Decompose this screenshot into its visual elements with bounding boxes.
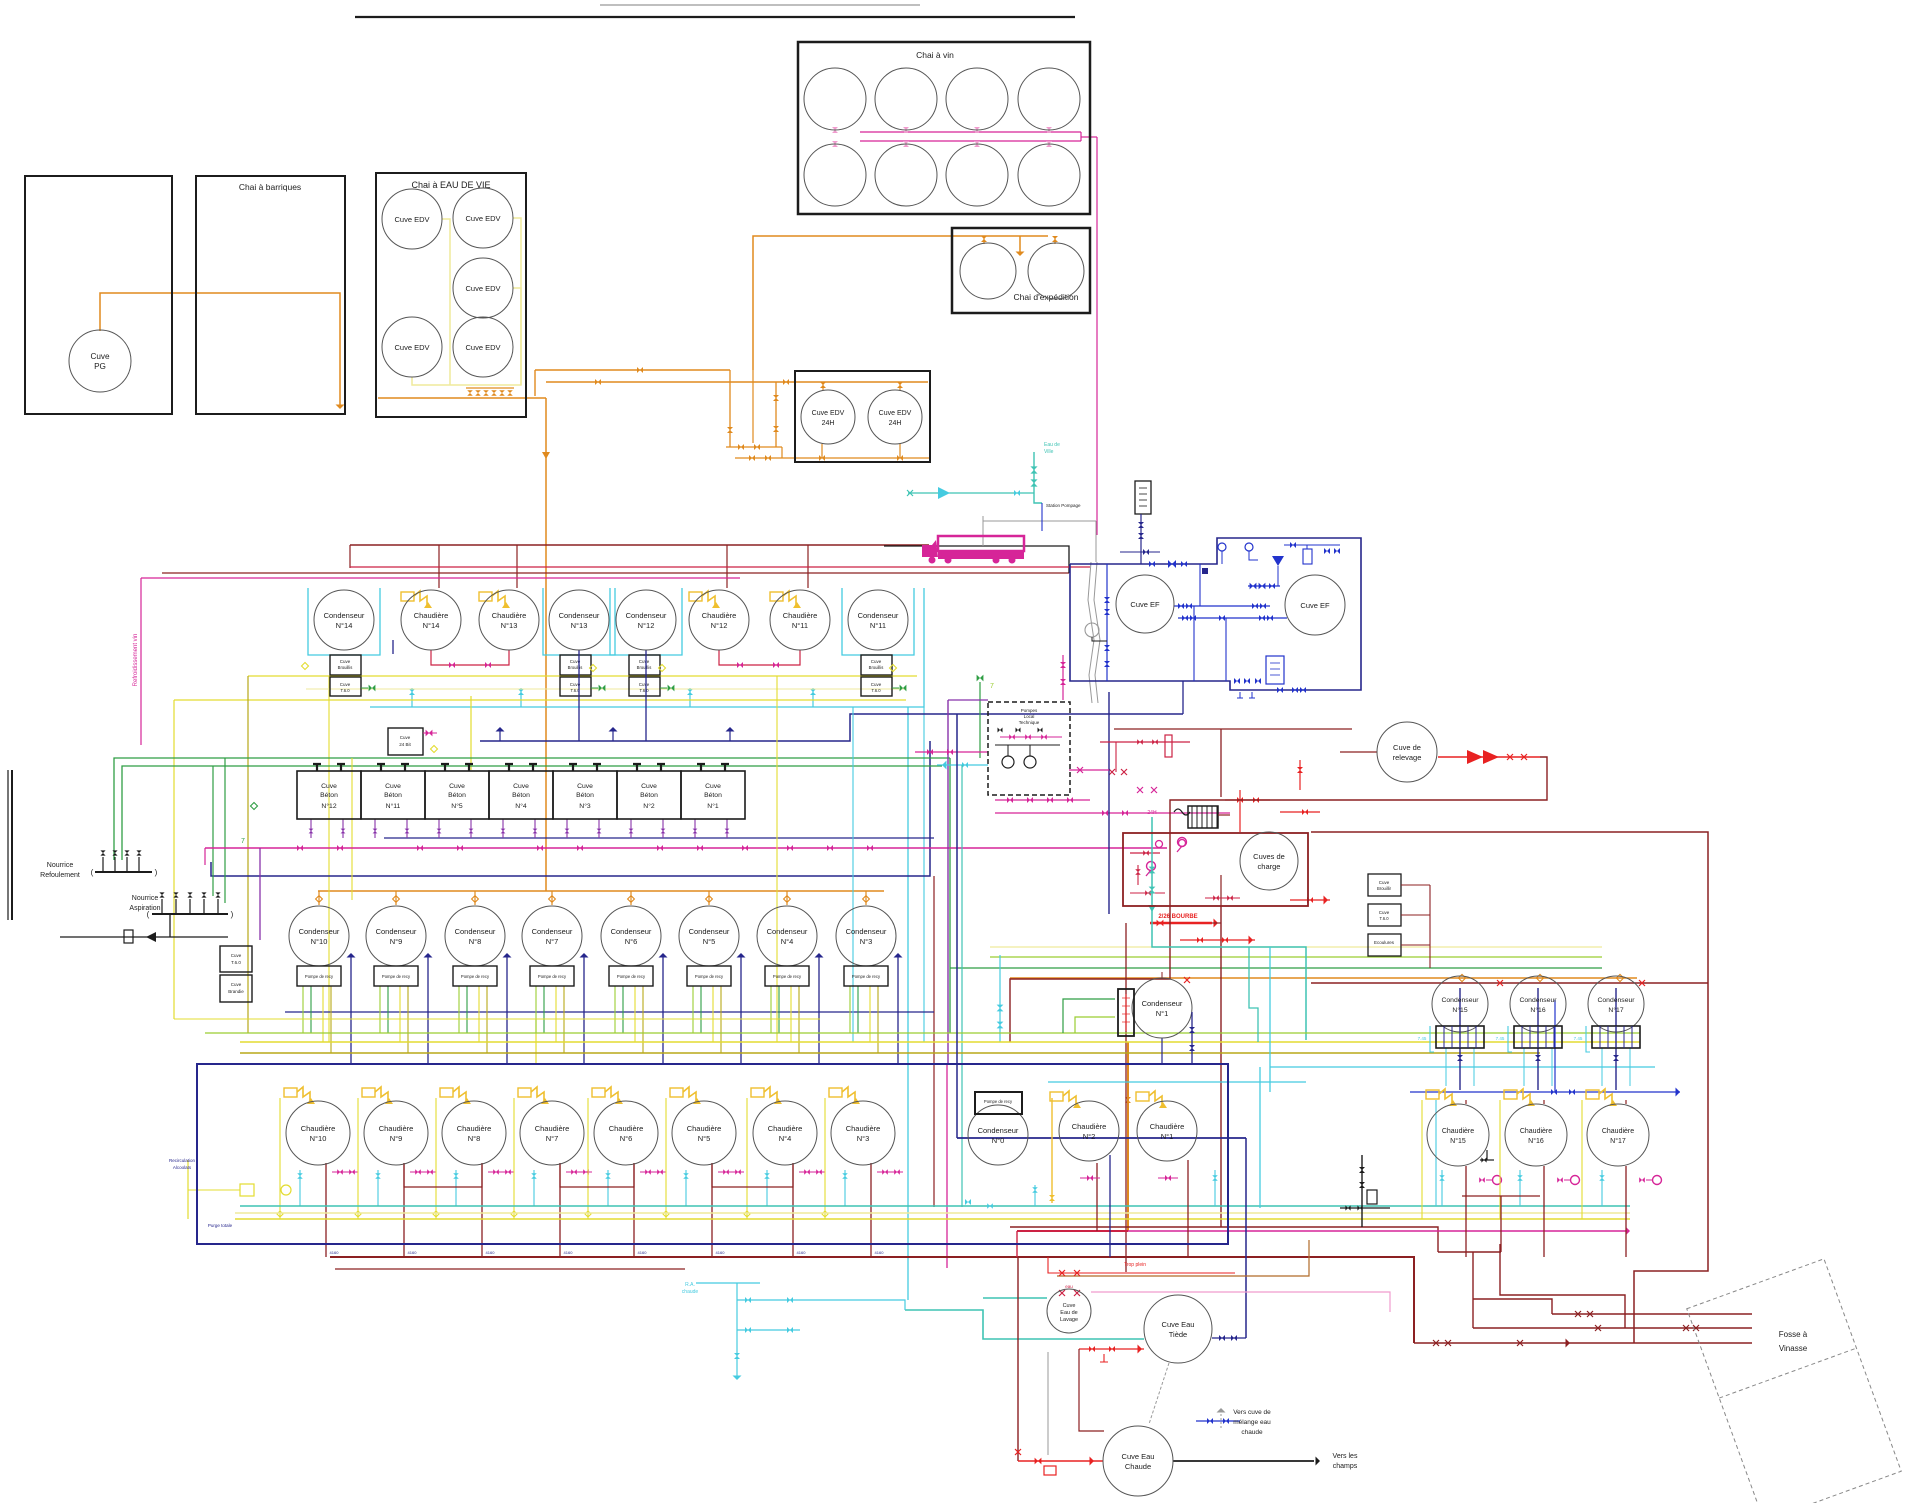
svg-text:Vinasse: Vinasse [1779, 1344, 1808, 1353]
svg-text:4160: 4160 [486, 1250, 496, 1255]
svg-text:Pompe de recy: Pompe de recy [382, 974, 411, 979]
wire cyan y1206 [240, 1205, 1630, 1207]
box cuve brouillis x861 [861, 655, 892, 675]
svg-text:4160: 4160 [408, 1250, 418, 1255]
box EDV 24H [795, 371, 930, 462]
wire yellow vert x174 [173, 700, 175, 1019]
valve green x560 [599, 685, 606, 692]
box chai expedition [952, 228, 1090, 313]
wire yellow vert x248 [247, 676, 249, 1033]
wire yellow h y700 [174, 699, 906, 701]
svg-text:N°12: N°12 [638, 621, 655, 630]
purple stubs beton x553 [566, 819, 568, 838]
svg-text:N°5: N°5 [698, 1134, 711, 1143]
svg-text:Chaudière: Chaudière [492, 611, 527, 620]
stub orange condenser 9 [395, 891, 397, 905]
cyan stub row3 x785 [766, 1170, 768, 1206]
svg-text:24H: 24H [1147, 810, 1157, 816]
burner chaud1 [1136, 1092, 1149, 1101]
black vers champs [1173, 1460, 1314, 1462]
svg-text:Béton: Béton [640, 792, 658, 799]
svg-text:Nourrice: Nourrice [47, 862, 74, 869]
svg-text:N°13: N°13 [571, 621, 588, 630]
svg-text:Condenseur: Condenseur [1142, 999, 1183, 1008]
magenta valves y848 [297, 845, 303, 851]
navy drop cond2 x787 [818, 955, 820, 1064]
wire magenta y1231 right [1128, 1230, 1626, 1232]
magenta pump trio x1458 [1493, 1176, 1502, 1185]
maroon relevage loop [1010, 757, 1547, 1042]
magenta pump trio x1618 [1653, 1176, 1662, 1185]
blue EF bottom valves [1234, 678, 1240, 684]
beton clamps N°2 [633, 764, 665, 771]
wire orange h y370 [535, 369, 730, 371]
blue tiede marks [1196, 1420, 1240, 1422]
svg-text:Chai à vin: Chai à vin [916, 50, 954, 60]
valve green x861 [900, 685, 907, 692]
box pompe N°10 row2 [297, 966, 341, 986]
wire crimson y1231 [1017, 1230, 1128, 1232]
black manifold 1362 [1361, 1155, 1363, 1227]
svg-text:Station Pompage: Station Pompage [1046, 503, 1081, 508]
wire orange vertical x545 [545, 398, 547, 891]
navy vert trio x1460 [1459, 988, 1461, 1090]
yellow feed row3 x474 [435, 1098, 437, 1219]
svg-text:N°2: N°2 [643, 802, 655, 810]
wire top black line [355, 16, 1075, 18]
svg-text:Béton: Béton [384, 792, 402, 799]
svg-text:N°14: N°14 [423, 621, 440, 630]
stub orange condenser 4 [786, 891, 788, 905]
stub orange condenser 6 [630, 891, 632, 905]
svg-text:N°14: N°14 [336, 621, 353, 630]
wire orange from Cuve PG [100, 293, 340, 406]
cyan stub row3 x552 [533, 1170, 535, 1206]
navy v x1246 [1245, 1138, 1247, 1338]
crimson h y742 [1100, 741, 1190, 743]
svg-text:mélange eau: mélange eau [1233, 1419, 1271, 1426]
svg-text:N°11: N°11 [792, 621, 808, 630]
tank Condenseur N°11 row1 [848, 590, 908, 650]
maroon drains chaud12 [1096, 1163, 1098, 1231]
burner trio x1618 [1586, 1090, 1599, 1099]
tank Chaudière N°13 row1 [479, 590, 539, 650]
box pompe N°6 row2 [609, 966, 653, 986]
navy v right cond1 [1191, 1012, 1193, 1064]
blue small instrument [1266, 656, 1284, 684]
burner trio x1458 [1426, 1090, 1439, 1099]
nourrice refoulement [95, 871, 152, 873]
svg-text:N°3: N°3 [857, 1134, 870, 1143]
beton clamps N°3 [569, 764, 601, 771]
wire navy x1110 [1109, 1155, 1111, 1257]
tank Chaudiere N°10 row3 [286, 1101, 350, 1165]
svg-text:Ecoulures: Ecoulures [1374, 940, 1395, 945]
tank Chaudière N°11 row1 [770, 590, 830, 650]
svg-text:Chaudière: Chaudière [535, 1124, 570, 1133]
tank vin top 0 [804, 68, 866, 130]
magenta diamonds y845 [1156, 841, 1163, 848]
svg-text:Condenseur: Condenseur [1441, 997, 1479, 1004]
svg-text:Cuve: Cuve [577, 783, 593, 790]
svg-text:N°8: N°8 [468, 1134, 481, 1143]
svg-text:N°0: N°0 [992, 1136, 1005, 1145]
green drops cond2 x709 [692, 986, 694, 1033]
svg-text:Condenseur: Condenseur [1597, 997, 1635, 1004]
cyan v 1270 [1269, 947, 1271, 1092]
tank Condenseur N°4 row2 [757, 906, 817, 966]
purple stubs beton x681 [694, 819, 696, 838]
svg-text:Chaudière: Chaudière [1520, 1128, 1552, 1135]
tank Chaudiere N°8 row3 [442, 1101, 506, 1165]
svg-text:N°10: N°10 [311, 937, 328, 946]
svg-text:Condenseur: Condenseur [532, 927, 573, 936]
maroon v x1018 [1017, 1257, 1019, 1461]
red tiede pipe [1079, 1348, 1144, 1350]
navy drop cond2 x631 [662, 955, 664, 1064]
svg-text:N°1: N°1 [1161, 1132, 1174, 1141]
cyan valve x690 [689, 688, 691, 707]
orange diamond trio x1540 [1536, 974, 1543, 981]
svg-text:Brouillir: Brouillir [1377, 886, 1392, 891]
green drops cond2 x866 [849, 986, 851, 1033]
svg-text:Technique: Technique [1019, 720, 1040, 725]
magenta pair row3 x704 [718, 1171, 744, 1173]
wire maroon y1227 [1010, 1227, 1438, 1252]
wire yellow vert x352 [351, 758, 353, 900]
svg-text:Cuve EDV: Cuve EDV [465, 343, 500, 352]
svg-text:N°4: N°4 [779, 1134, 792, 1143]
tank condenseur N16 [1510, 976, 1566, 1032]
wire yellow vert x536 [535, 1019, 537, 1064]
svg-text:Chaudière: Chaudière [846, 1124, 881, 1133]
svg-text:Cuve: Cuve [340, 682, 351, 687]
box cuve brouillis x560 [560, 655, 591, 675]
svg-text:Béton: Béton [704, 792, 722, 799]
svg-text:N°9: N°9 [390, 1134, 403, 1143]
valve orange 786 [783, 379, 789, 385]
svg-text:Cuve: Cuve [871, 659, 882, 664]
cyan x1000 lower [999, 955, 1001, 1042]
pink lavage marks [1059, 1290, 1065, 1296]
cyan valve x521 [520, 688, 522, 707]
cyan bottom cluster [696, 1282, 760, 1284]
box pompe N°3 row2 [844, 966, 888, 986]
svg-text:N°11: N°11 [870, 621, 886, 630]
svg-text:Cuve EDV: Cuve EDV [394, 343, 429, 352]
svg-text:7.45: 7.45 [1574, 1036, 1583, 1041]
navy vert trio x1538 [1537, 988, 1539, 1090]
cyan stub trio x1536 [1519, 1170, 1521, 1206]
green drops cond2 x787 [770, 986, 772, 1033]
svg-text:Nourrice: Nourrice [132, 895, 159, 902]
box pumps dashed [988, 702, 1070, 795]
svg-text:Cuves de: Cuves de [1253, 852, 1285, 861]
burner row3 x474 [440, 1088, 453, 1097]
burner chaudiere top x431 [401, 592, 414, 601]
svg-text:Cuve: Cuve [871, 682, 882, 687]
tank eau tiede [1144, 1295, 1212, 1363]
svg-text:Chaudière: Chaudière [1072, 1122, 1107, 1131]
green bowtie x980 [977, 675, 984, 682]
cyan v1260 [1259, 1067, 1261, 1208]
truck tanker [922, 536, 1024, 564]
tank condenseur N17 [1588, 976, 1644, 1032]
box pompe N°5 row2 [687, 966, 731, 986]
cyan stub row3 x396 [377, 1170, 379, 1206]
wire magenta x947 lower [946, 1064, 948, 1268]
cyan valve x813 [812, 688, 814, 707]
cyan jacket condenser x878 [842, 588, 914, 655]
cyan jacket condenser x344 [308, 588, 380, 655]
svg-text:Pompe de recy: Pompe de recy [461, 974, 490, 979]
blue v1555 [1554, 1000, 1556, 1092]
svg-text:N°5: N°5 [703, 937, 716, 946]
box cuve beton N°11 [361, 771, 425, 819]
svg-text:7.45: 7.45 [1418, 1036, 1427, 1041]
valve orange 823 [820, 382, 826, 388]
wire cyan vert x908 [907, 707, 909, 1300]
svg-text:Cuve: Cuve [231, 982, 242, 987]
burner chaudiere top x509 [479, 592, 492, 601]
tank condenseur N15 [1432, 976, 1488, 1032]
tank eau chaude [1103, 1426, 1173, 1496]
navy tiede link [1212, 1337, 1246, 1339]
maroon drain trio x1536 [1543, 1166, 1545, 1257]
maroon drain row3 x396 [403, 1163, 405, 1257]
cyan y1082 [1048, 1081, 1306, 1083]
wire green vert x225 [224, 758, 226, 903]
tank vin top 1 [875, 68, 937, 130]
magenta charge cluster h [995, 799, 1090, 801]
svg-text:Béton: Béton [320, 792, 338, 799]
wire yellow y1042 [240, 1041, 1640, 1043]
magenta x marks [1137, 787, 1143, 793]
valve green x330 [369, 685, 376, 692]
svg-text:N°3: N°3 [860, 937, 873, 946]
svg-text:N°4: N°4 [781, 937, 794, 946]
svg-text:Cuve: Cuve [513, 783, 529, 790]
wire olive y1053 [240, 1052, 1540, 1054]
magenta pair row3 x626 [640, 1171, 666, 1173]
tank chaudiere N1 [1137, 1101, 1197, 1161]
svg-text:T.6.0: T.6.0 [871, 688, 881, 693]
red arrows right charge [1290, 899, 1330, 901]
svg-text:Pompe de recy: Pompe de recy [773, 974, 802, 979]
tank cuve EF 1 [1116, 575, 1174, 633]
box cuve beton N°12 [297, 771, 361, 819]
maroon fosse feed 3 [1414, 1342, 1752, 1344]
navy cond1 stub [1161, 1038, 1163, 1064]
svg-text:Chaudière: Chaudière [457, 1124, 492, 1133]
svg-text:2/26 BOURBE: 2/26 BOURBE [1158, 914, 1197, 920]
stub orange condenser 7 [551, 891, 553, 905]
burner row3 x785 [751, 1088, 764, 1097]
svg-text:Cuve: Cuve [1379, 910, 1390, 915]
navy EF topbus items [1218, 543, 1226, 551]
tank vin top 2 [946, 68, 1008, 130]
navy v x1109 [1108, 692, 1110, 914]
svg-text:Chaudière: Chaudière [1150, 1122, 1185, 1131]
svg-text:Béton: Béton [576, 792, 594, 799]
wire orange condenser bus [318, 890, 884, 892]
green hook cond1 [1063, 999, 1115, 1033]
magenta pumpbox link [1069, 769, 1109, 771]
tank eau lavage [1047, 1289, 1091, 1333]
wire pale yellow y676 [248, 675, 917, 677]
box trio cond 1 [1514, 1026, 1562, 1048]
box cuve beton N°4 [489, 771, 553, 819]
valve orange 900 [897, 382, 903, 388]
svg-text:Brouillis: Brouillis [338, 665, 353, 670]
cyan jacket condenser x579 [543, 588, 615, 655]
svg-text:R.A.: R.A. [685, 1282, 695, 1288]
box cuve beton N°1 [681, 771, 745, 819]
box cuve brouillis x330 [330, 655, 361, 675]
svg-text:Condenseur: Condenseur [299, 927, 340, 936]
tank vin bottom 1 [875, 144, 937, 206]
svg-text:Cuve EDV: Cuve EDV [879, 410, 912, 417]
navy stub cond13 [578, 650, 580, 741]
box cuve beton N°5 [425, 771, 489, 819]
svg-text:Brouillis: Brouillis [869, 665, 884, 670]
wire pink vin bus [860, 131, 1081, 133]
maroon v x1221 top [1220, 729, 1222, 797]
wire purple pumpbox [948, 699, 988, 701]
svg-text:7: 7 [241, 838, 245, 845]
svg-text:Tiède: Tiède [1169, 1330, 1187, 1339]
box left small 1 [220, 946, 252, 972]
burner row3 x863 [829, 1088, 842, 1097]
tank Condenseur N°9 row2 [366, 906, 426, 966]
stub orange condenser 3 [865, 891, 867, 905]
black aspiration piping [169, 914, 171, 937]
red lavage pipe [1048, 1257, 1235, 1273]
navy drop cond2 x475 [506, 955, 508, 1064]
purple stubs beton x489 [502, 819, 504, 838]
svg-text:relevage: relevage [1393, 753, 1422, 762]
svg-text:N°13: N°13 [501, 621, 518, 630]
tank Chaudiere N°7 row3 [520, 1101, 584, 1165]
tank Condenseur N°6 row2 [601, 906, 661, 966]
tank cuve EF 2 [1285, 575, 1345, 635]
teal y1339 [905, 1310, 1144, 1339]
blue EF pump line [1248, 585, 1280, 587]
magenta pair row3 x552 [566, 1171, 592, 1173]
wire yellow y1019 [174, 1018, 820, 1020]
svg-text:Chaudière: Chaudière [379, 1124, 414, 1133]
svg-text:Purge totale: Purge totale [208, 1223, 233, 1228]
purple stubs beton x361 [374, 819, 376, 838]
black trio link [1480, 1159, 1494, 1161]
wire khaki EDV vertical 1 [442, 219, 450, 385]
wire orange exp drop [1019, 236, 1021, 252]
magenta charge cluster h2 [995, 812, 1230, 814]
beton clamps N°11 [377, 764, 409, 771]
wire navy beton bottom bus [211, 741, 930, 876]
wire magenta vert x1097 [1096, 137, 1098, 535]
svg-text:Pompe de recy: Pompe de recy [305, 974, 334, 979]
green drops cond2 x631 [614, 986, 616, 1033]
wire lightgreen y957 [990, 956, 1602, 958]
red cluster charge [1225, 799, 1270, 801]
cyan jacket condenser x646 [610, 588, 682, 655]
pumpbox internals [1002, 756, 1014, 768]
svg-text:24H: 24H [822, 420, 835, 427]
wire purple x948 [947, 700, 949, 1064]
maroon drain row3 x785 [792, 1163, 794, 1257]
svg-text:N°15: N°15 [1452, 1006, 1467, 1014]
svg-text:N°6: N°6 [625, 937, 638, 946]
stub orange condenser 8 [474, 891, 476, 905]
black page edge [7, 770, 9, 920]
navy drop instrument [1140, 514, 1142, 564]
tank Chaudière N°12 row1 [689, 590, 749, 650]
green drops cond2 x396 [379, 986, 381, 1033]
box charge [1123, 833, 1308, 906]
svg-text:Condenseur: Condenseur [559, 611, 600, 620]
gray v x1048 [1047, 1352, 1049, 1455]
wire maroon y1269 [335, 1268, 685, 1270]
svg-text:4160: 4160 [638, 1250, 648, 1255]
navy stub cond12 [645, 650, 647, 741]
tank chaudiere N15 [1427, 1104, 1489, 1166]
navy EF exit down [1182, 681, 1184, 714]
box cuve beton N°2 [617, 771, 681, 819]
blue y1092 [1410, 1091, 1680, 1093]
svg-text:Cuve EDV: Cuve EDV [465, 214, 500, 223]
box cuve brouillis x629 [629, 655, 660, 675]
yellow feed row3 x626 [587, 1098, 589, 1219]
tank chaudiere N17 [1587, 1104, 1649, 1166]
svg-text:N°1: N°1 [707, 802, 719, 810]
orange diamond trio x1620 [1616, 974, 1623, 981]
svg-text:Cuve EDV: Cuve EDV [394, 215, 429, 224]
beton clamps N°5 [441, 764, 473, 771]
tank Chaudiere N°3 row3 [831, 1101, 895, 1165]
svg-text:Pompe de recy: Pompe de recy [538, 974, 567, 979]
maroon drain row3 x474 [481, 1163, 483, 1257]
tank vin top 3 [1018, 68, 1080, 130]
svg-text:Lavage: Lavage [1060, 1317, 1078, 1323]
svg-text:): ) [155, 868, 158, 877]
tank Chaudiere N°9 row3 [364, 1101, 428, 1165]
tank cuve EDV 2 [453, 188, 513, 248]
burner row3 x318 [284, 1088, 297, 1097]
yellow feed row3 x396 [357, 1098, 359, 1219]
svg-text:Condenseur: Condenseur [858, 611, 899, 620]
svg-text:N°8: N°8 [469, 937, 482, 946]
navy drop cond2 x552 [583, 955, 585, 1064]
cyan stub trio x1618 [1601, 1170, 1603, 1206]
svg-text:charge: charge [1258, 862, 1281, 871]
svg-text:N°4: N°4 [515, 802, 527, 810]
wire magenta y848 [205, 847, 1167, 849]
svg-text:Cuve: Cuve [641, 783, 657, 790]
svg-text:N°17: N°17 [1610, 1137, 1626, 1145]
svg-text:N°3: N°3 [579, 802, 591, 810]
box cuve 24 bit [388, 728, 423, 755]
svg-text:Chai à barriques: Chai à barriques [239, 182, 301, 192]
svg-text:champs: champs [1333, 1463, 1358, 1470]
wire magenta bus y578 [141, 577, 740, 579]
wire maroon vert x934 [933, 876, 935, 1207]
red pump relevage [1438, 756, 1540, 758]
tank Condenseur N°12 row1 [616, 590, 676, 650]
burner trio x1536 [1504, 1090, 1517, 1099]
wire maroon bus y545 [350, 544, 929, 546]
svg-text:Ville: Ville [1044, 449, 1054, 455]
